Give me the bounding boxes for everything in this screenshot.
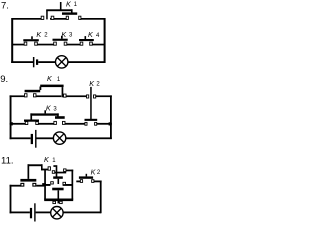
battery circuit 11 short plate — [30, 208, 32, 218]
wire top rail segment 1 circuit 9 — [10, 95, 28, 97]
switch K3 circuit 9 contact post 2 — [36, 122, 39, 125]
switch K3 circuit 9 contact post 1 — [25, 122, 28, 125]
wire top rail segment 2a circuit 9 — [36, 95, 61, 97]
contact post Pc circuit 11 — [64, 169, 66, 172]
wire lower-left rail segment 2 circuit 11 — [36, 185, 44, 187]
switch K3 circuit 9 pole A bar — [24, 120, 39, 122]
wire grid right vertical circuit 11 — [72, 170, 74, 200]
switch K2 circuit 9 lever shaft — [90, 87, 92, 120]
switch K1 left pole lever — [46, 10, 48, 19]
wire middle rail segment 4 circuit 9 — [97, 123, 112, 125]
switch K2 contact post 2 — [35, 42, 38, 45]
battery circuit 11 long plate — [34, 203, 35, 221]
switch K1 link bar — [46, 9, 72, 11]
switch K3 circuit 9 link step-down — [57, 113, 59, 116]
switch K3 circuit 9 link bar — [30, 113, 58, 115]
wire left edge circuit 7 — [11, 18, 13, 63]
switch K2 circuit 9 bottom contact post 2 — [95, 122, 97, 125]
grid T-bar 1 — [53, 176, 63, 178]
wire left edge circuit 11 — [10, 185, 12, 214]
wire bottom rail segment 3 circuit 11 — [63, 212, 101, 214]
switch lower-left circuit 11 pivot stem — [28, 164, 30, 179]
wire K2 branch segment 2 circuit 11 — [94, 181, 102, 183]
grid middle stem 1 — [56, 165, 58, 176]
grid rung2 contact post 1 — [51, 182, 54, 184]
junction middle rail / right edge circuit 9 — [109, 122, 112, 125]
wire left edge circuit 9 — [10, 95, 12, 139]
switch K2 circuit 9 top contact post 2 — [94, 95, 96, 98]
junction middle rail / left edge circuit 9 — [10, 122, 12, 125]
wire top rail segment 3 circuit 7 — [79, 18, 106, 20]
switch K3 contact post 2 — [64, 42, 67, 45]
switch K1 right pole open bar — [62, 12, 77, 14]
switch K3 circuit 9 pole A stem — [30, 113, 32, 119]
battery circuit 9 short plate — [31, 134, 33, 144]
switch K1 circuit 9 contact post 2 — [33, 94, 36, 97]
switch K4 contact post 2 — [90, 42, 93, 45]
wire bottom rail segment 2 circuit 9 — [37, 137, 54, 139]
wire right edge circuit 7 — [104, 18, 106, 63]
switch K2 lever bar — [23, 39, 39, 41]
switch K1 handle — [60, 2, 62, 10]
wire top rail segment 3 circuit 9 — [93, 95, 112, 97]
wire top rail segment 2 circuit 7 — [50, 18, 69, 20]
grid T-bar 2 — [52, 188, 63, 191]
switch K1 contact post 2 — [51, 16, 54, 19]
switch K3 contact post 1 — [54, 42, 57, 45]
switch K3 lever bar — [53, 39, 68, 41]
switch K2 circuit 9 top contact post 1 — [87, 95, 89, 98]
wire middle rail segment 2 circuit 9 — [39, 123, 54, 125]
wire bottom rail segment 3 circuit 9 — [66, 137, 112, 139]
switch K3 handle stub — [61, 36, 63, 39]
switch K1 contact post 1 — [41, 16, 44, 19]
wire top rail segment B circuit 11 — [41, 169, 48, 171]
grid rung2 left segment — [44, 184, 50, 186]
wire top rail jog circuit 11 — [41, 164, 43, 170]
wire middle rail segment 3 circuit 7 — [64, 44, 83, 46]
battery circuit 9 long plate — [35, 130, 36, 148]
grid middle stem top hook — [53, 165, 56, 167]
switch K1 contact post 3 — [66, 16, 68, 19]
wire middle rail segment 2 circuit 7 — [35, 44, 57, 46]
switch K4 lever bar — [79, 39, 94, 41]
wire middle rail segment 1 circuit 7 — [12, 44, 27, 46]
switch K2 circuit 11 contact post 2 — [92, 180, 94, 183]
switch K3 circuit 9 pole B contact post 2 — [62, 121, 65, 124]
wire grid left vertical circuit 11 — [44, 169, 46, 200]
wire lower-left rail segment 1 circuit 11 — [10, 185, 21, 187]
wire bottom rail segment 2 circuit 11 — [36, 212, 51, 214]
switch lower-left circuit 11 contact post 2 — [33, 183, 36, 186]
lamp circuit 9 — [53, 132, 65, 144]
switch K2 circuit 11 contact post 1 — [80, 180, 82, 183]
wire bottom rail segment 1 circuit 9 — [10, 137, 31, 139]
switch K1 circuit 9 lever riser — [40, 87, 42, 91]
wire top rail segment C circuit 11 — [55, 172, 66, 174]
grid middle stem 3 — [58, 190, 60, 203]
battery circuit 7 long plate — [33, 57, 35, 67]
wire right edge circuit 9 — [110, 95, 112, 139]
switch K2 circuit 9 bottom contact post 1 — [85, 122, 87, 125]
svg-text:7.: 7. — [1, 0, 9, 11]
switch K1 contact post 4 — [79, 16, 81, 19]
switch K3 circuit 9 pole B bar — [55, 116, 65, 119]
wire middle rail segment 3 circuit 9 — [65, 123, 86, 125]
wire bottom rail segment 2 circuit 7 — [38, 61, 56, 63]
grid bottom contact post 2 — [60, 201, 63, 203]
grid rung2 left junction — [42, 183, 46, 186]
battery circuit 7 short plate — [36, 59, 38, 65]
grid rung2 contact post 2 — [63, 182, 66, 184]
wire right edge circuit 11 — [100, 181, 102, 214]
wire K2 branch segment 1 circuit 11 — [76, 181, 80, 183]
wire middle rail segment 1 circuit 9 — [10, 123, 28, 125]
switch K1 link drop — [71, 9, 73, 13]
lamp circuit 11 — [51, 207, 63, 219]
switch lower-left circuit 11 lever bar — [20, 179, 36, 182]
wire middle rail segment 4 circuit 7 — [90, 44, 106, 46]
wire top rail segment A circuit 11 — [28, 164, 43, 166]
svg-text:9.: 9. — [0, 74, 8, 85]
wire bottom rail segment 1 circuit 11 — [10, 212, 30, 214]
switch K2 circuit 11 handle stub — [86, 174, 88, 177]
contact post Pb circuit 11 — [52, 171, 54, 174]
switch K1 circuit 9 link drop — [62, 87, 64, 97]
grid rung2 right segment — [63, 184, 73, 186]
wire bottom rail segment 3 circuit 7 — [68, 61, 106, 63]
grid bottom rung — [44, 199, 73, 202]
grid middle stem 2 — [58, 179, 60, 184]
lamp circuit 7 — [56, 56, 68, 68]
wire bottom rail segment 1 circuit 7 — [11, 61, 33, 63]
switch K4 handle stub — [85, 36, 87, 39]
contact post Pa circuit 11 — [48, 167, 50, 170]
svg-text:11.: 11. — [1, 156, 14, 167]
wire top rail segment 2b circuit 9 — [66, 95, 89, 97]
switch K2 contact post 1 — [24, 42, 27, 45]
switch K3 circuit 9 pole B contact post 1 — [54, 121, 57, 124]
switch K2 circuit 11 lever bar — [79, 176, 93, 178]
switch K2 circuit 9 bottom bar — [85, 119, 98, 121]
switch K1 circuit 9 link bar — [40, 85, 63, 88]
switch K3 circuit 9 handle stub — [44, 110, 46, 113]
switch K4 contact post 1 — [80, 42, 83, 45]
grid bottom contact post 1 — [53, 201, 56, 203]
switch K1 circuit 9 contact post 3 — [64, 94, 67, 97]
wire top rail segment 1 circuit 7 — [12, 18, 44, 20]
switch K2 handle stub — [31, 36, 33, 39]
switch K1 circuit 9 contact post 1 — [25, 94, 28, 97]
switch lower-left circuit 11 contact post 1 — [21, 183, 24, 186]
wire top rail segment D circuit 11 — [66, 170, 73, 172]
switch K1 circuit 9 lever lower step — [25, 90, 41, 93]
